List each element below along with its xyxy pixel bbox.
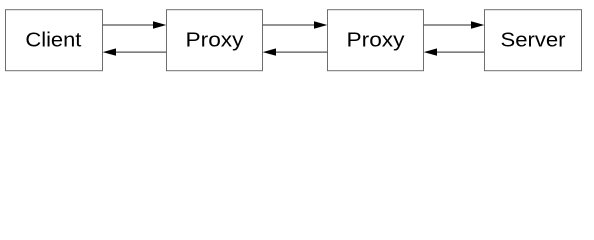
arrow Proxy to Server (top, points right) [424,21,485,28]
arrow Client to Proxy (top, points right) [103,21,167,28]
svg-text:Server: Server [501,30,566,52]
box Client [6,10,103,71]
box Server [485,10,582,71]
arrow Proxy to Proxy (bottom, points left) [263,48,328,55]
box Proxy (second) [328,10,424,71]
svg-text:Client: Client [25,30,81,52]
arrow Proxy to Client (bottom, points left) [103,48,167,55]
svg-text:Proxy: Proxy [186,30,244,52]
arrow Server to Proxy (bottom, points left) [424,48,485,55]
box Proxy (first) [167,10,263,71]
svg-text:Proxy: Proxy [347,30,405,52]
arrow Proxy to Proxy (top, points right) [263,21,328,28]
